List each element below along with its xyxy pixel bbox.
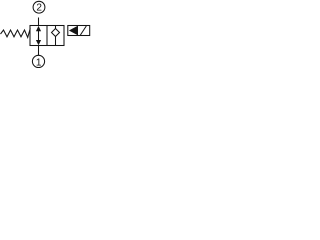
svg-text:1: 1 (36, 57, 42, 68)
svg-text:2: 2 (36, 3, 42, 14)
